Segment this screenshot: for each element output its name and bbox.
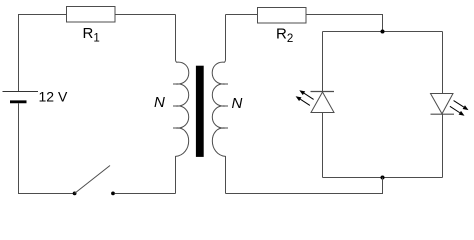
LED D2 cathode bar — [431, 113, 455, 115]
battery: long thin positive plate — [3, 91, 39, 93]
primary coil cusp ticks — [173, 84, 179, 128]
LED D1 triangle — [311, 92, 334, 113]
wire: top connector between LED branches — [323, 31, 443, 33]
battery: short thick negative plate — [10, 100, 27, 103]
switch S1 blade — [75, 166, 110, 194]
wire: bottom junction down and back to secondary coil bottom lead — [226, 178, 383, 194]
LED D1 emission arrow 1 — [299, 90, 313, 99]
wire: switch to primary coil bottom lead — [115, 193, 176, 195]
wire: R2 to right, down to LED branch junction — [306, 15, 383, 32]
wire: bottom connector between LED branches — [323, 177, 443, 179]
resistor R1 — [67, 7, 116, 23]
LED D2 emission arrow 2 — [450, 106, 465, 116]
svg-text:N: N — [154, 94, 165, 111]
LED D1 (points up) cathode bar — [311, 91, 335, 93]
LED D1 emission arrow 2 — [296, 96, 310, 105]
wire: top-left from battery up and across to R1 — [19, 15, 67, 92]
LED D2 (points down) triangle — [431, 94, 454, 114]
wire: left LED branch lower — [322, 113, 324, 178]
wire: right LED branch lower — [442, 114, 444, 177]
switch S1 contact node (right) — [111, 192, 115, 196]
resistor R2 — [258, 8, 307, 24]
transformer primary winding (left coil, 4 turns, leads at x=175.5) — [176, 15, 189, 194]
switch S1 contact node (left) — [73, 192, 77, 196]
node: top junction dot — [381, 30, 385, 34]
secondary coil cusp ticks — [222, 84, 228, 128]
svg-text:N: N — [232, 95, 243, 112]
wire: R1 to primary coil top lead — [115, 14, 176, 16]
wire: secondary coil top lead to R2 — [226, 14, 258, 16]
node: bottom junction dot — [381, 176, 385, 180]
wire: left LED branch upper — [322, 32, 324, 92]
svg-text:12 V: 12 V — [39, 89, 68, 105]
wire: right LED branch upper — [442, 32, 444, 94]
wire: battery down to bottom-left corner and to switch — [19, 103, 74, 193]
transformer core — [196, 66, 204, 157]
LED D2 emission arrow 1 — [454, 101, 469, 111]
transformer secondary winding (right coil, 4 turns, leads at x=225.5) — [212, 15, 225, 194]
